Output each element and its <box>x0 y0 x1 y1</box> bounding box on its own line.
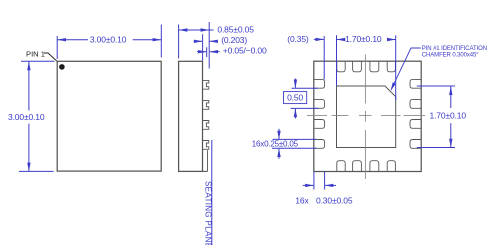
dimension (0.35) extension line <box>323 36 325 79</box>
dimension text 3.00±0.10 left <box>8 112 45 122</box>
bottom view package outline <box>314 61 421 171</box>
dimension 0.85±0.05 arrowheads <box>179 28 209 31</box>
dimension text 1.70±0.10 right <box>430 110 467 120</box>
pin 1 index dot <box>59 64 65 70</box>
dimension 3.00±0.10 (top view horizontal) extension line right <box>160 25 162 58</box>
svg-text:3.00±0.10: 3.00±0.10 <box>8 112 45 122</box>
dimension 1.70±0.10 (bottom view vertical) extension lines <box>417 86 455 148</box>
seating plane datum line <box>211 140 213 245</box>
seating plane label <box>204 181 213 245</box>
side view bottom lead-frame step <box>203 150 208 171</box>
side view package body outline <box>179 61 203 171</box>
dimension +0.05/-0.00 arrows <box>197 50 220 53</box>
dimension 1.70±0.10 (bottom view vertical) arrowheads <box>449 86 452 147</box>
dimension text +0.05/-0.00 <box>223 46 267 56</box>
dimension 0.50 arrows <box>294 79 297 119</box>
dimension text 0.85±0.05 <box>217 25 254 35</box>
pin 1 chamfer note text <box>422 46 487 58</box>
dimension 3.00±0.10 (top view horizontal) dimension line <box>57 39 161 41</box>
bottom view right column terminals (4 pads) <box>410 79 421 148</box>
horizontal centerline <box>307 114 425 116</box>
dimension 0.50 extension lines <box>291 88 319 108</box>
dimension text 1.70±0.10 top <box>345 34 382 44</box>
bottom view left column terminals (4 pads) <box>314 79 325 148</box>
pin 1 chamfer note leader <box>391 48 421 91</box>
dimension 0.85±0.05 dimension line <box>179 29 214 31</box>
dimension 1.70±0.10 (bottom view horizontal) arrowheads <box>337 38 396 41</box>
dimension text (0.35) <box>287 34 309 44</box>
svg-text:(0.203): (0.203) <box>221 35 247 45</box>
dimension text 3.00±0.10 top <box>90 35 127 45</box>
svg-text:0.30±0.05: 0.30±0.05 <box>316 195 353 205</box>
svg-text:0.85±0.05: 0.85±0.05 <box>217 25 254 35</box>
dimension text (0.203) <box>221 35 247 45</box>
dimension (0.35) arrow <box>314 38 324 41</box>
dimension text 16x0.25±0.05 <box>252 139 299 148</box>
svg-text:SEATING PLANE: SEATING PLANE <box>204 181 213 245</box>
svg-text:CHAMFER 0.300x45°: CHAMFER 0.300x45° <box>422 52 479 58</box>
dimension 3.00±0.10 (top view horizontal) extension line left <box>56 36 58 59</box>
dimension 3.00±0.10 (top view vertical) extension line top <box>21 60 55 62</box>
label PIN 1 <box>26 49 45 58</box>
bottom view top row terminals (4 pads) <box>337 61 396 72</box>
dimension 1.70±0.10 (bottom view horizontal) dimension line <box>337 39 396 41</box>
dimension (0.203) extension line <box>202 34 204 61</box>
svg-text:16x: 16x <box>295 195 309 205</box>
dimension 1.70±0.10 (bottom view vertical) dimension line <box>450 86 452 147</box>
dimension 3.00±0.10 (top view vertical) dimension line <box>28 61 30 171</box>
svg-text:+0.05/−0.00: +0.05/−0.00 <box>223 46 267 56</box>
svg-text:(0.35): (0.35) <box>287 34 309 44</box>
svg-text:1.70±0.10: 1.70±0.10 <box>345 34 382 44</box>
dimension text 16x 0.30±0.05 <box>295 195 353 205</box>
svg-text:3.00±0.10: 3.00±0.10 <box>90 35 127 45</box>
dimension 3.00±0.10 (top view horizontal) arrowheads <box>57 38 161 41</box>
svg-text:1.70±0.10: 1.70±0.10 <box>430 110 467 120</box>
top view package body outline <box>57 61 161 171</box>
dimension 3.00±0.10 (top view vertical) arrowheads <box>27 62 30 172</box>
dimension 1.70±0.10 (bottom view horizontal) extension lines <box>337 35 396 100</box>
svg-text:16x0.25±0.05: 16x0.25±0.05 <box>252 139 299 148</box>
dimension (0.203) arrows <box>194 40 218 43</box>
svg-text:PIN #1 IDENTIFICATION: PIN #1 IDENTIFICATION <box>422 46 487 52</box>
dimension 16x0.25±0.05 arrows <box>277 129 280 159</box>
svg-text:0.50: 0.50 <box>287 93 303 103</box>
svg-text:PIN 1: PIN 1 <box>26 49 45 58</box>
dimension 0.85±0.05 extension line right <box>208 22 210 69</box>
dimension 3.00±0.10 (top view vertical) extension line bottom <box>19 170 54 172</box>
side view leads (4 terminal cross-sections) <box>203 80 209 149</box>
dimension text 0.50 <box>287 93 303 103</box>
dimension 16x0.25±0.05 extension lines <box>272 139 317 148</box>
pin 1 leader line <box>44 53 57 61</box>
dimension +0.05/-0.00 tick <box>206 47 208 57</box>
bottom view bottom row terminals (4 pads) <box>337 161 396 172</box>
dimension 16x 0.30±0.05 extension lines <box>314 172 325 190</box>
exposed thermal pad with pin-1 chamfer <box>337 86 396 148</box>
dimension 0.50 basic-dimension box <box>284 92 307 104</box>
dimension 16x 0.30±0.05 arrows <box>303 184 336 187</box>
dimension 0.85±0.05 extension line left <box>178 25 180 59</box>
vertical centerline <box>364 55 366 180</box>
